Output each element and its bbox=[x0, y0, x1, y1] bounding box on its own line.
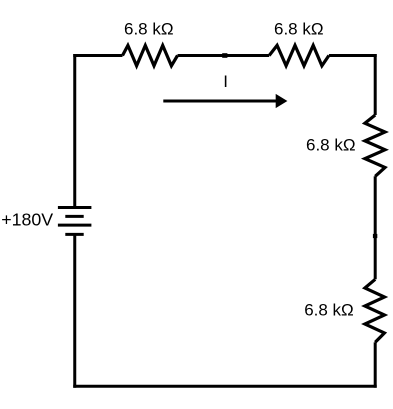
wire: top side, right segment to top-right corner bbox=[329, 54, 377, 57]
wire: left side, upper segment (top-left corner to battery positive plate) bbox=[73, 54, 76, 208]
svg-text:6.8 kΩ: 6.8 kΩ bbox=[274, 20, 324, 39]
junction blob on right wire bbox=[373, 234, 377, 238]
current arrow: head bbox=[276, 94, 288, 108]
battery B1: short negative plate (bottom) bbox=[65, 233, 83, 236]
wire: bottom side bbox=[73, 385, 376, 388]
resistor R3 (right upper, 6.8 kOhm) bbox=[365, 115, 385, 176]
wire: top side, middle segment bbox=[178, 54, 270, 57]
junction blob on top wire bbox=[222, 53, 227, 58]
battery B1: long plate 2 bbox=[58, 224, 92, 227]
battery B1: short plate 1 bbox=[65, 215, 83, 218]
wire: top side, left segment bbox=[73, 54, 122, 57]
svg-text:I: I bbox=[223, 72, 228, 91]
wire: right side, lower segment to bottom-right corner bbox=[374, 342, 377, 387]
battery B1: long positive plate (top) bbox=[58, 206, 92, 209]
current arrow: shaft bbox=[163, 100, 277, 103]
svg-text:+180V: +180V bbox=[1, 210, 53, 230]
svg-text:6.8 kΩ: 6.8 kΩ bbox=[124, 20, 174, 39]
wire: right side, upper segment bbox=[374, 54, 377, 115]
resistor R2 (top-right, 6.8 kOhm) bbox=[269, 45, 329, 65]
resistor R1 (top-left, 6.8 kOhm) bbox=[123, 45, 178, 65]
svg-text:6.8 kΩ: 6.8 kΩ bbox=[304, 301, 354, 320]
wire: right side, middle segment bbox=[374, 176, 377, 279]
svg-text:6.8 kΩ: 6.8 kΩ bbox=[306, 135, 356, 154]
resistor R4 (right lower, 6.8 kOhm) bbox=[365, 279, 385, 342]
wire: left side, lower segment (battery negative plate to bottom-left corner) bbox=[73, 234, 76, 387]
